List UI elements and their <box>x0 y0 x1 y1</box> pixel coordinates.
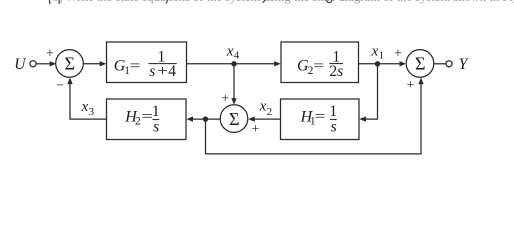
bottom rail wire to right summing junction <box>206 83 422 154</box>
block H1 box <box>281 99 360 140</box>
svg-text:x: x <box>81 99 89 115</box>
svg-text:=: = <box>315 108 326 125</box>
svg-text:=: = <box>313 57 324 74</box>
svg-text:1: 1 <box>379 49 385 61</box>
wire S2 to output terminal <box>434 63 446 65</box>
wire junction down to bottom rail <box>205 119 207 154</box>
node x1 junction dot <box>375 61 380 66</box>
svg-text:s: s <box>153 119 159 136</box>
summing junction S1 (left) <box>56 50 84 78</box>
wire S3 output to H2 <box>192 118 221 120</box>
caption descender marks <box>49 0 331 4</box>
svg-text:2: 2 <box>135 116 141 128</box>
block G1 box <box>107 42 187 83</box>
svg-text:x: x <box>226 44 234 60</box>
svg-text:+: + <box>46 47 54 62</box>
svg-text:3: 3 <box>89 106 95 118</box>
summing junction S2 (right) <box>406 50 434 78</box>
svg-text:+: + <box>407 78 415 93</box>
svg-text:Σ: Σ <box>64 54 74 74</box>
svg-text:+: + <box>394 47 402 62</box>
block H2 box <box>107 99 187 140</box>
wire x1 down to H1 input <box>365 64 378 119</box>
wire U to summing junction <box>36 63 50 65</box>
node x4 junction dot <box>231 61 236 66</box>
wire S1 to G1 <box>83 63 100 65</box>
block H2 label H2 = 1/s <box>124 103 159 136</box>
svg-text:+: + <box>221 91 229 106</box>
block H1 label H1 = 1/s <box>300 103 338 136</box>
wire x4 down to bottom summing junction <box>233 64 235 99</box>
svg-text:−: − <box>56 78 64 93</box>
svg-text:+: + <box>252 122 260 137</box>
svg-text:=: = <box>130 57 141 74</box>
clipped caption text line at top <box>48 0 514 4</box>
svg-text:Σ: Σ <box>415 54 425 74</box>
svg-text:1: 1 <box>329 103 337 120</box>
svg-text:Y: Y <box>459 56 469 73</box>
svg-text:x: x <box>371 44 379 60</box>
svg-text:2s: 2s <box>329 63 343 80</box>
input terminal circle <box>30 61 36 67</box>
wire H1 to bottom summing junction <box>253 118 280 120</box>
junction dot between S3 and H2 <box>203 116 208 121</box>
svg-text:+: + <box>157 62 168 80</box>
block G2 box <box>281 42 359 83</box>
svg-text:4: 4 <box>168 63 176 80</box>
svg-text:2: 2 <box>267 106 273 118</box>
svg-text:x: x <box>259 99 267 115</box>
svg-text:s: s <box>149 63 155 80</box>
block G2 label G2 = 1/(2s) <box>297 49 343 80</box>
block G1 label G1 = 1/(s+4) <box>114 49 177 80</box>
output terminal circle <box>446 61 452 67</box>
wire G2 to right summing junction <box>359 63 401 65</box>
svg-text:U: U <box>14 56 27 73</box>
svg-text:s: s <box>331 119 337 136</box>
wire H2 output to left summing junction <box>70 83 107 119</box>
summing junction S3 (bottom) <box>220 105 248 133</box>
svg-text:4: 4 <box>234 49 240 61</box>
svg-text:Σ: Σ <box>229 109 239 129</box>
wire G1 to G2 <box>187 63 276 65</box>
svg-text:1: 1 <box>152 103 160 120</box>
